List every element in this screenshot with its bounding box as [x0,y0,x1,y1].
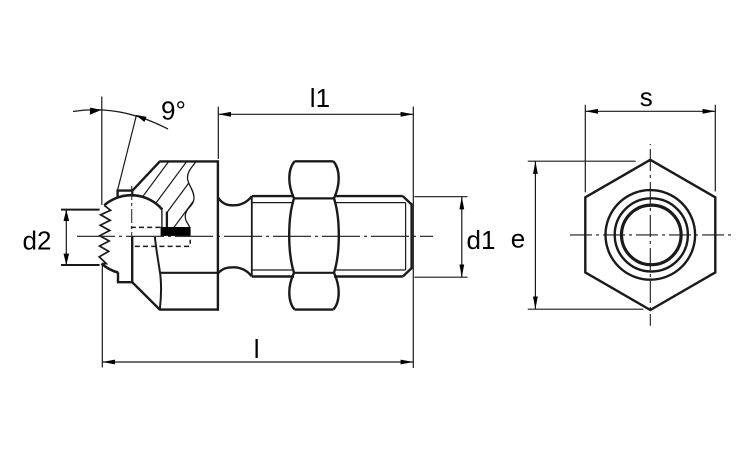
nut top face edge [295,160,334,162]
hexagon outline [585,160,715,310]
neck top curve [218,196,252,205]
9deg vertical extension line [101,97,103,205]
housing lower silhouette curve [155,237,161,309]
thread crest bottom left [252,275,294,277]
e bottom arrowhead [533,297,538,310]
svg-text:9°: 9° [161,96,186,126]
section break S-curve [185,161,196,227]
bottom lip [118,237,132,283]
hatch section (broken-out) [67,155,263,250]
housing lower hex corner line [161,272,218,274]
d1 top extension line [414,196,467,198]
ball vertical centerline [131,186,133,282]
l right arrowhead [401,360,414,365]
main horizontal centerline (side view) [77,235,433,237]
housing top chamfer 45deg [133,161,160,190]
thread root top right [334,202,406,204]
thread end chamfer top [403,196,412,204]
neck bottom curve [218,267,252,276]
housing right edge [217,160,219,311]
pad serrated face zigzag [99,205,110,263]
d2 bottom extension line [61,264,100,266]
right extension line (shared l1 / l / d1) [412,107,414,368]
ball top arc [104,195,162,209]
l1 left extension line [217,107,219,159]
e dimension line [534,161,536,309]
s dimension line [585,110,715,112]
l left extension line [101,265,103,368]
hex nut side view [289,161,339,309]
svg-text:l1: l1 [310,83,330,113]
l1 dimension line [218,113,413,115]
9deg slanted extension line [118,115,137,189]
housing bottom cone 45deg [132,282,160,309]
socket gap right line [166,212,168,227]
thread root bottom right [334,269,406,271]
d2 top extension line [61,209,100,211]
e top extension line [528,160,636,162]
nut right silhouette [333,161,338,309]
thread root top left [252,202,294,204]
s right extension line [714,105,716,192]
thread hole circle (inner) [622,205,682,265]
svg-text:d1: d1 [467,225,496,255]
d2 top arrowhead [64,210,70,221]
nut left silhouette [289,161,294,309]
d1 top arrowhead [459,197,464,210]
d1 dimension line [461,197,463,278]
l1 right arrowhead [401,112,414,117]
s left arrowhead [585,109,598,114]
top lip right edge [132,191,134,197]
hidden dashed groove line upper [131,226,161,228]
d1 bottom arrowhead [459,265,464,278]
svg-text:l: l [254,334,260,364]
l left arrowhead [102,360,115,365]
svg-text:d2: d2 [23,225,52,255]
nut bottom face edge [295,308,334,310]
l dimension line [102,361,413,363]
hidden dashed groove line lower [135,245,190,247]
9deg dimension arc [73,110,168,129]
thread major circle (middle) [615,198,688,271]
hidden dashed groove right edge [189,240,191,247]
9deg right arrowhead [136,115,147,122]
top lip [118,191,133,199]
chamfer circle (outer) [606,190,696,280]
hex horizontal centerline [570,234,732,236]
l1 left arrowhead [218,112,231,117]
ball bottom arc [102,264,118,273]
d1 bottom extension line [414,276,467,278]
s right arrowhead [703,109,716,114]
thread crest top left [252,195,294,197]
housing top edge [159,160,218,162]
9deg left arrowhead [90,108,102,115]
d2 bottom arrowhead [64,254,70,265]
s left extension line [584,105,586,193]
thread crest bottom right [334,275,403,277]
nut upper corner line [294,197,334,199]
svg-text:s: s [640,82,653,112]
svg-text:e: e [511,224,525,254]
thread crest top right [334,195,403,197]
thread end right edge [410,204,412,270]
d2 dimension line [65,210,67,265]
thread start vertical [251,196,253,276]
retaining ring (black) [161,227,191,236]
nut lower corner line [294,272,334,274]
thread end chamfer bottom [403,268,412,276]
housing bottom edge [159,308,218,310]
e top arrowhead [533,161,538,174]
hex vertical centerline [649,144,651,326]
socket gap left line [161,209,163,227]
thread root end vertical [405,203,407,270]
e bottom extension line [528,308,644,310]
thread root bottom left [252,269,294,271]
